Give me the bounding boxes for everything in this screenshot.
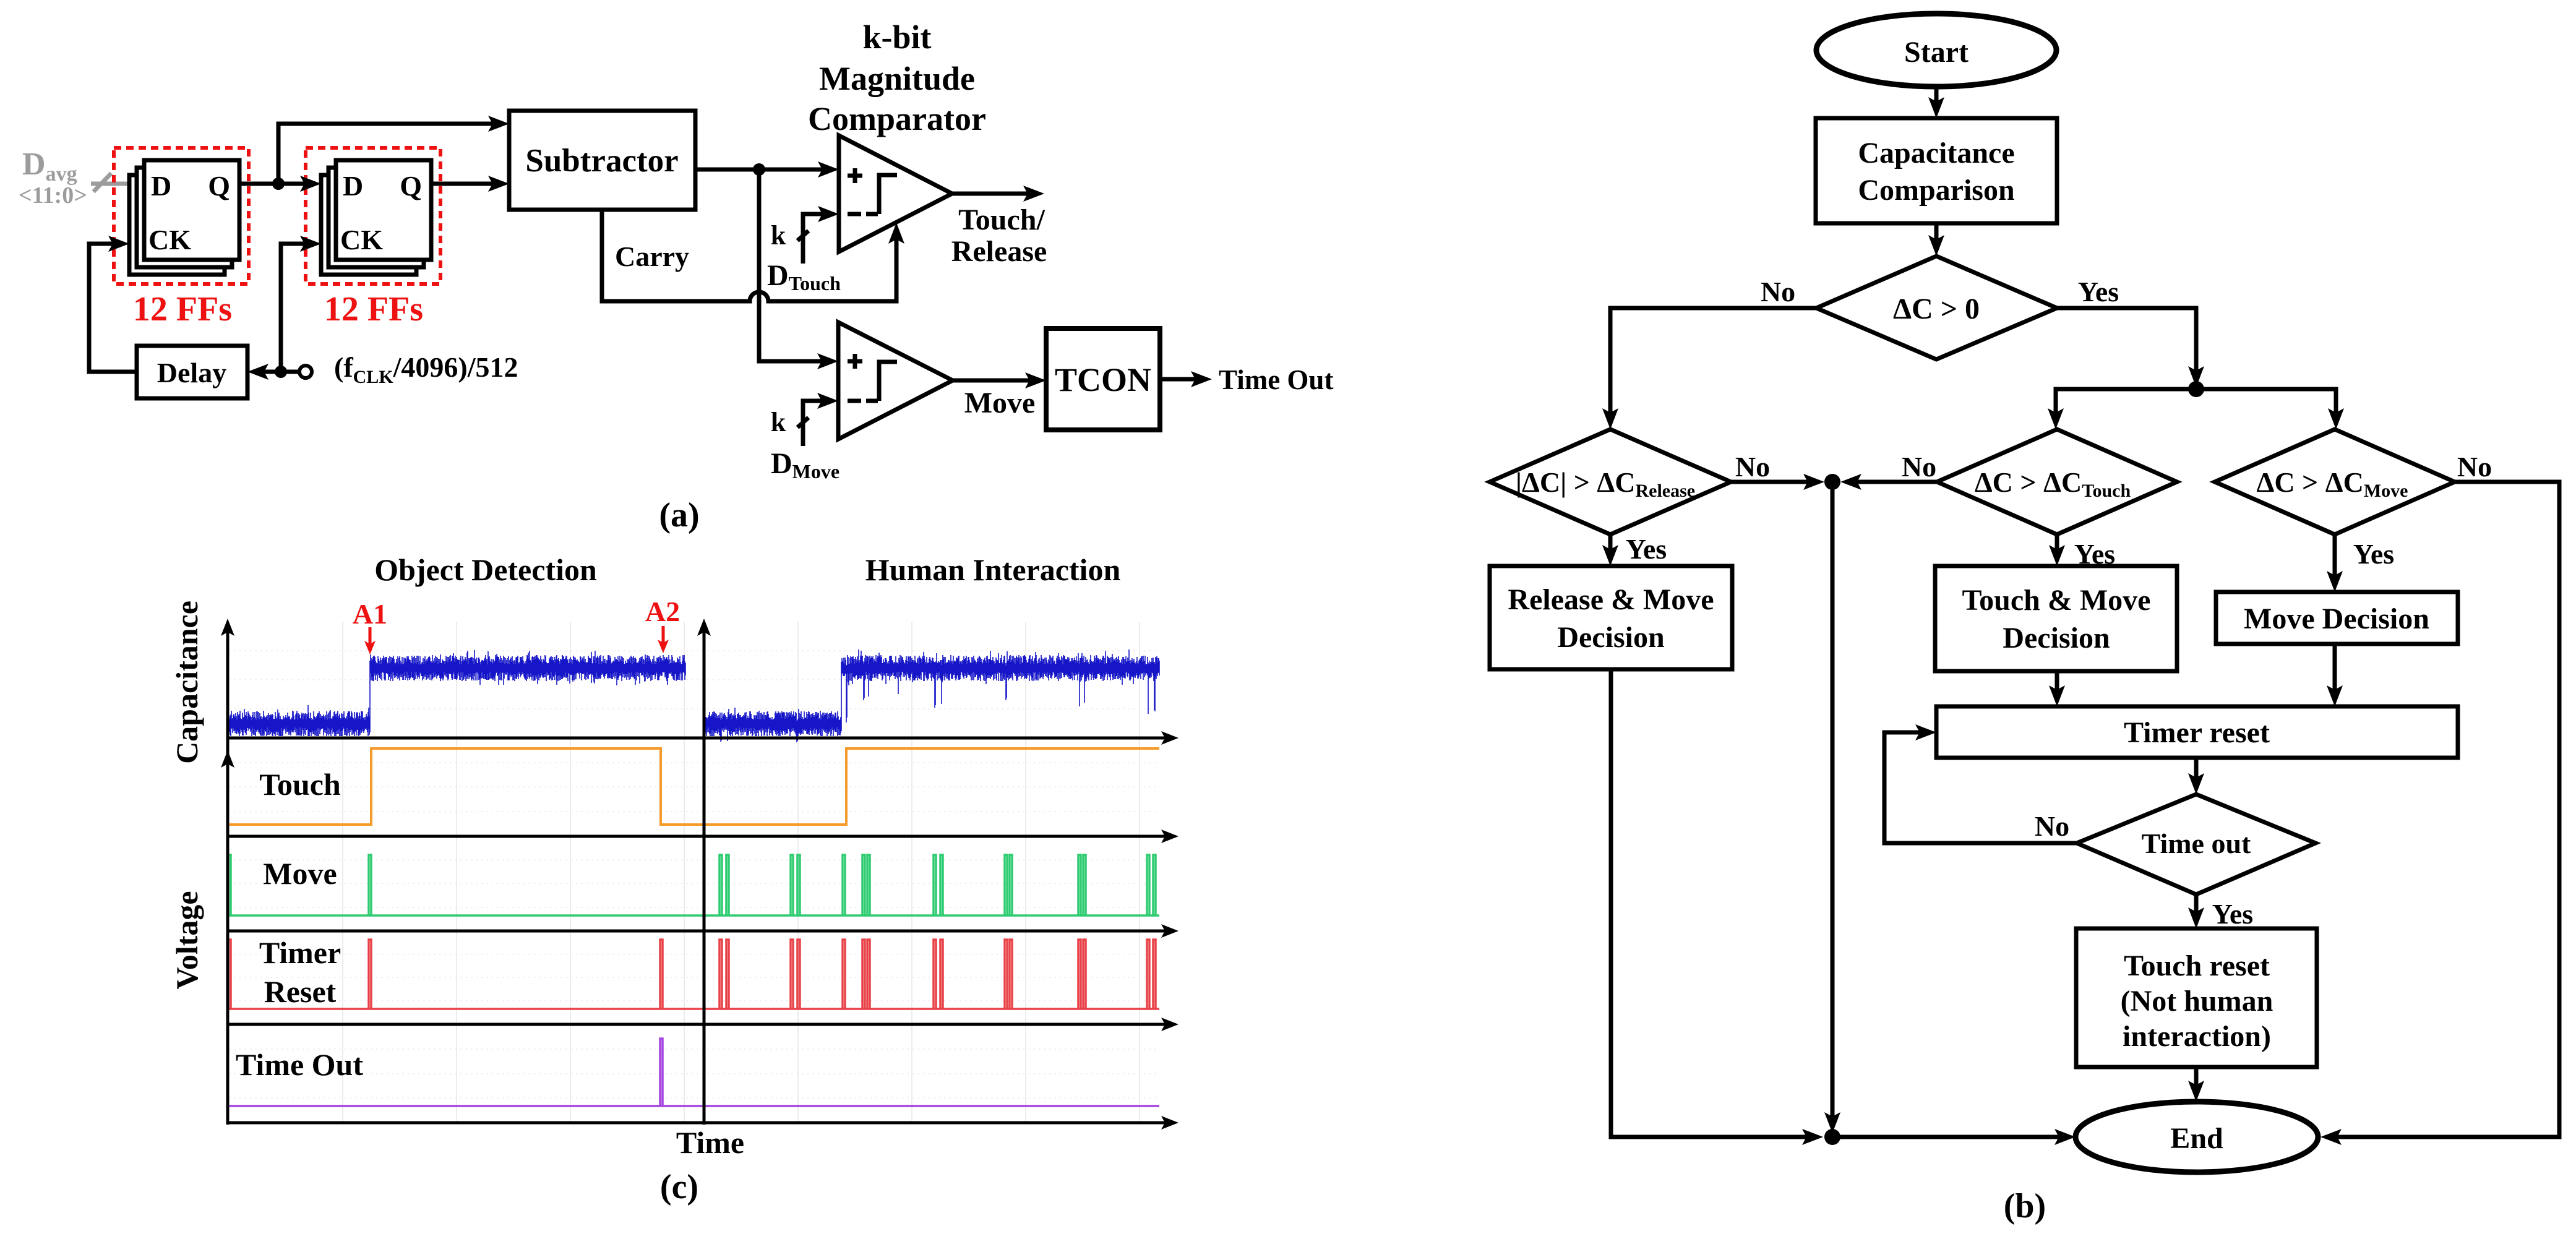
- svg-text:A1: A1: [353, 598, 387, 630]
- red dashed group box around FF2: [306, 148, 440, 284]
- svg-text:Comparison: Comparison: [1858, 174, 2014, 207]
- svg-text:Object Detection: Object Detection: [374, 552, 597, 587]
- svg-text:Move: Move: [263, 856, 337, 891]
- svg-text:Release & Move: Release & Move: [1508, 583, 1714, 616]
- svg-text:(Not human: (Not human: [2121, 985, 2273, 1018]
- wire merge node down to bottom junction: [1824, 482, 1840, 1133]
- flip-flop stack FF2 (12 FFs): [321, 160, 431, 275]
- arrow Move Decision to Timer reset: [2327, 644, 2343, 706]
- svg-text:No: No: [1761, 276, 1795, 307]
- node junction on subtractor output: [753, 163, 765, 176]
- svg-text:Carry: Carry: [615, 241, 689, 272]
- wire Q2 to Subtractor bottom input: [431, 176, 509, 192]
- svg-text:Touch reset: Touch reset: [2124, 950, 2270, 982]
- svg-text:Timer reset: Timer reset: [2124, 716, 2270, 749]
- svg-text:<11:0>: <11:0>: [19, 182, 87, 208]
- arrow Touch & Move box to Timer reset: [2049, 671, 2065, 706]
- svg-text:Yes: Yes: [2353, 538, 2394, 570]
- svg-text:Capacitance: Capacitance: [1858, 137, 2014, 169]
- wire Q1 junction up and over to Subtractor top input: [278, 116, 509, 184]
- svg-text:Time: Time: [676, 1125, 744, 1160]
- arrow Touch reset to End: [2188, 1067, 2204, 1102]
- comparator U2 (Move): [838, 322, 953, 439]
- waveform grid: [229, 622, 1159, 1123]
- svg-text:CK: CK: [148, 224, 191, 255]
- process Touch reset (Not human interaction): [2076, 928, 2317, 1067]
- marker A2: [645, 596, 680, 653]
- Touch trace (orange): [228, 748, 1159, 825]
- svg-text:Yes: Yes: [1626, 533, 1667, 565]
- process Capacitance Comparison: [1816, 118, 2057, 223]
- axis lines: [228, 626, 1171, 1125]
- svg-text:Touch/: Touch/: [958, 204, 1045, 236]
- merge node: [1824, 474, 1840, 490]
- arrow Start to Capacitance Comparison: [1928, 87, 1944, 118]
- svg-text:Voltage: Voltage: [170, 891, 204, 989]
- bottom junction node: [1824, 1129, 1840, 1145]
- arrow to decision dC>0: [1928, 223, 1944, 256]
- wire Carry from Subtractor to U1 low input (hops over vertical wire): [602, 210, 904, 301]
- wire Q1 to D2: [239, 176, 321, 192]
- svg-text:k: k: [771, 220, 786, 251]
- TCON block: [1046, 328, 1160, 430]
- node junction on Q1 wire: [272, 178, 285, 190]
- process Move Decision: [2216, 592, 2458, 644]
- svg-text:Subtractor: Subtractor: [525, 143, 678, 179]
- decision dC > dCTouch: [1937, 429, 2177, 534]
- decision |dC| > dCRelease: [1490, 429, 1731, 534]
- svg-text:(b): (b): [2004, 1187, 2046, 1225]
- svg-text:No: No: [2035, 810, 2069, 842]
- Time Out trace (purple): [228, 1039, 1159, 1106]
- svg-text:Release: Release: [951, 235, 1047, 268]
- split junction node: [2188, 381, 2204, 397]
- svg-text:CK: CK: [340, 224, 383, 255]
- wire clock terminal to Delay input: [247, 364, 299, 380]
- svg-text:Reset: Reset: [264, 974, 337, 1009]
- wire Release box to bottom junction: [1611, 669, 1823, 1145]
- bus label Davg<11:0>: [19, 147, 87, 208]
- svg-text:No: No: [1902, 451, 1936, 482]
- wire Touch No to merge node: [1840, 474, 1937, 490]
- wire Move No to End (right side): [2321, 482, 2559, 1145]
- marker A1: [353, 598, 387, 654]
- flip-flop stack FF1 (12 FFs): [129, 160, 239, 275]
- process Touch & Move Decision: [1935, 566, 2177, 671]
- svg-text:TCON: TCON: [1055, 361, 1151, 398]
- svg-text:Time Out: Time Out: [1219, 364, 1333, 395]
- svg-text:Yes: Yes: [2078, 276, 2119, 307]
- svg-text:Touch & Move: Touch & Move: [1962, 584, 2151, 617]
- arrow Touch Yes to Touch & Move Decision: [2049, 534, 2065, 566]
- svg-text:End: End: [2170, 1122, 2223, 1155]
- svg-text:Yes: Yes: [2212, 898, 2253, 930]
- wire Yes branch down to split junction: [2057, 308, 2204, 387]
- wire Delay output to FF1 CK: [89, 236, 137, 372]
- title k-bit Magnitude Comparator: [808, 19, 986, 137]
- svg-text:Start: Start: [1904, 36, 1968, 69]
- svg-text:Human Interaction: Human Interaction: [865, 552, 1121, 587]
- svg-text:k-bit: k-bit: [862, 19, 931, 56]
- wire No branch to Release decision: [1602, 308, 1816, 429]
- svg-text:Time out: Time out: [2142, 828, 2251, 859]
- svg-text:Move: Move: [964, 387, 1036, 419]
- wire DMove k-bit input to U2 - input: [797, 393, 838, 446]
- svg-text:Timer: Timer: [259, 935, 341, 970]
- svg-text:Q: Q: [400, 170, 422, 202]
- wire DTouch k-bit input to U1 - input: [797, 206, 839, 264]
- arrow Timer reset to Time out decision: [2188, 758, 2204, 794]
- decision Time out: [2077, 794, 2316, 894]
- arrow Move Yes to Move Decision: [2327, 534, 2343, 592]
- clock input terminal circle: [299, 366, 312, 378]
- wire Davg bus into FF1 D input (gray, with slash): [91, 173, 129, 192]
- svg-text:12 FFs: 12 FFs: [324, 290, 423, 328]
- svg-text:Decision: Decision: [1557, 621, 1664, 654]
- svg-text:(c): (c): [660, 1168, 698, 1206]
- svg-text:Comparator: Comparator: [808, 100, 986, 137]
- svg-text:interaction): interaction): [2123, 1020, 2271, 1053]
- svg-text:Q: Q: [208, 170, 230, 202]
- decision dC>0: [1816, 256, 2057, 359]
- wire clock junction to FF2 CK: [281, 236, 321, 372]
- svg-text:Decision: Decision: [2003, 622, 2110, 654]
- wire Subtractor output to comparator U1 + input: [695, 161, 839, 178]
- wire Release No to merge node: [1731, 474, 1824, 490]
- wire junction to Touch decision: [2048, 389, 2196, 429]
- Delay block: [137, 346, 247, 398]
- svg-text:Move Decision: Move Decision: [2244, 602, 2429, 635]
- capacitance trace (blue) region 1: [228, 650, 685, 736]
- svg-text:D: D: [343, 170, 363, 202]
- wire Time out No loop back to Timer reset: [1884, 724, 2077, 843]
- process Timer reset: [1936, 706, 2458, 758]
- capacitance trace (blue) region 2: [705, 650, 1159, 742]
- svg-text:12 FFs: 12 FFs: [133, 290, 232, 328]
- svg-text:Touch: Touch: [259, 767, 341, 802]
- Move trace (green): [228, 855, 1159, 915]
- wire TCON output Time Out: [1160, 371, 1212, 387]
- wire bottom junction to End: [1832, 1129, 2076, 1145]
- node junction on clock wire: [275, 366, 287, 378]
- svg-text:A2: A2: [645, 596, 680, 627]
- Subtractor block: [509, 111, 695, 210]
- process Release & Move Decision: [1490, 566, 1732, 669]
- wire U2 output Move to TCON: [953, 372, 1046, 388]
- svg-text:Delay: Delay: [157, 357, 226, 388]
- svg-text:No: No: [2457, 451, 2492, 482]
- svg-text:No: No: [1735, 451, 1770, 482]
- svg-text:ΔC > 0: ΔC > 0: [1893, 293, 1980, 325]
- svg-text:(a): (a): [659, 496, 699, 534]
- Timer Reset trace (red): [228, 940, 1159, 1009]
- arrow Time out Yes to Touch reset: [2188, 894, 2204, 928]
- wire U1 output Touch/Release: [952, 186, 1044, 202]
- decision dC > dCMove: [2215, 429, 2455, 534]
- wire junction to Move decision: [2196, 389, 2344, 429]
- svg-text:Capacitance: Capacitance: [170, 601, 204, 764]
- comparator U1 (Touch/Release): [839, 135, 952, 252]
- svg-text:Time Out: Time Out: [236, 1047, 363, 1082]
- red dashed group box around FF1: [114, 148, 249, 284]
- svg-text:k: k: [771, 407, 786, 437]
- wire junction down to comparator U2 + input: [759, 169, 838, 369]
- arrow Release Yes to Release & Move Decision: [1602, 534, 1618, 566]
- svg-text:D: D: [151, 170, 171, 202]
- svg-text:Magnitude: Magnitude: [819, 60, 975, 97]
- flowchart Start terminator: [1816, 14, 2056, 87]
- flowchart End terminator: [2076, 1102, 2318, 1172]
